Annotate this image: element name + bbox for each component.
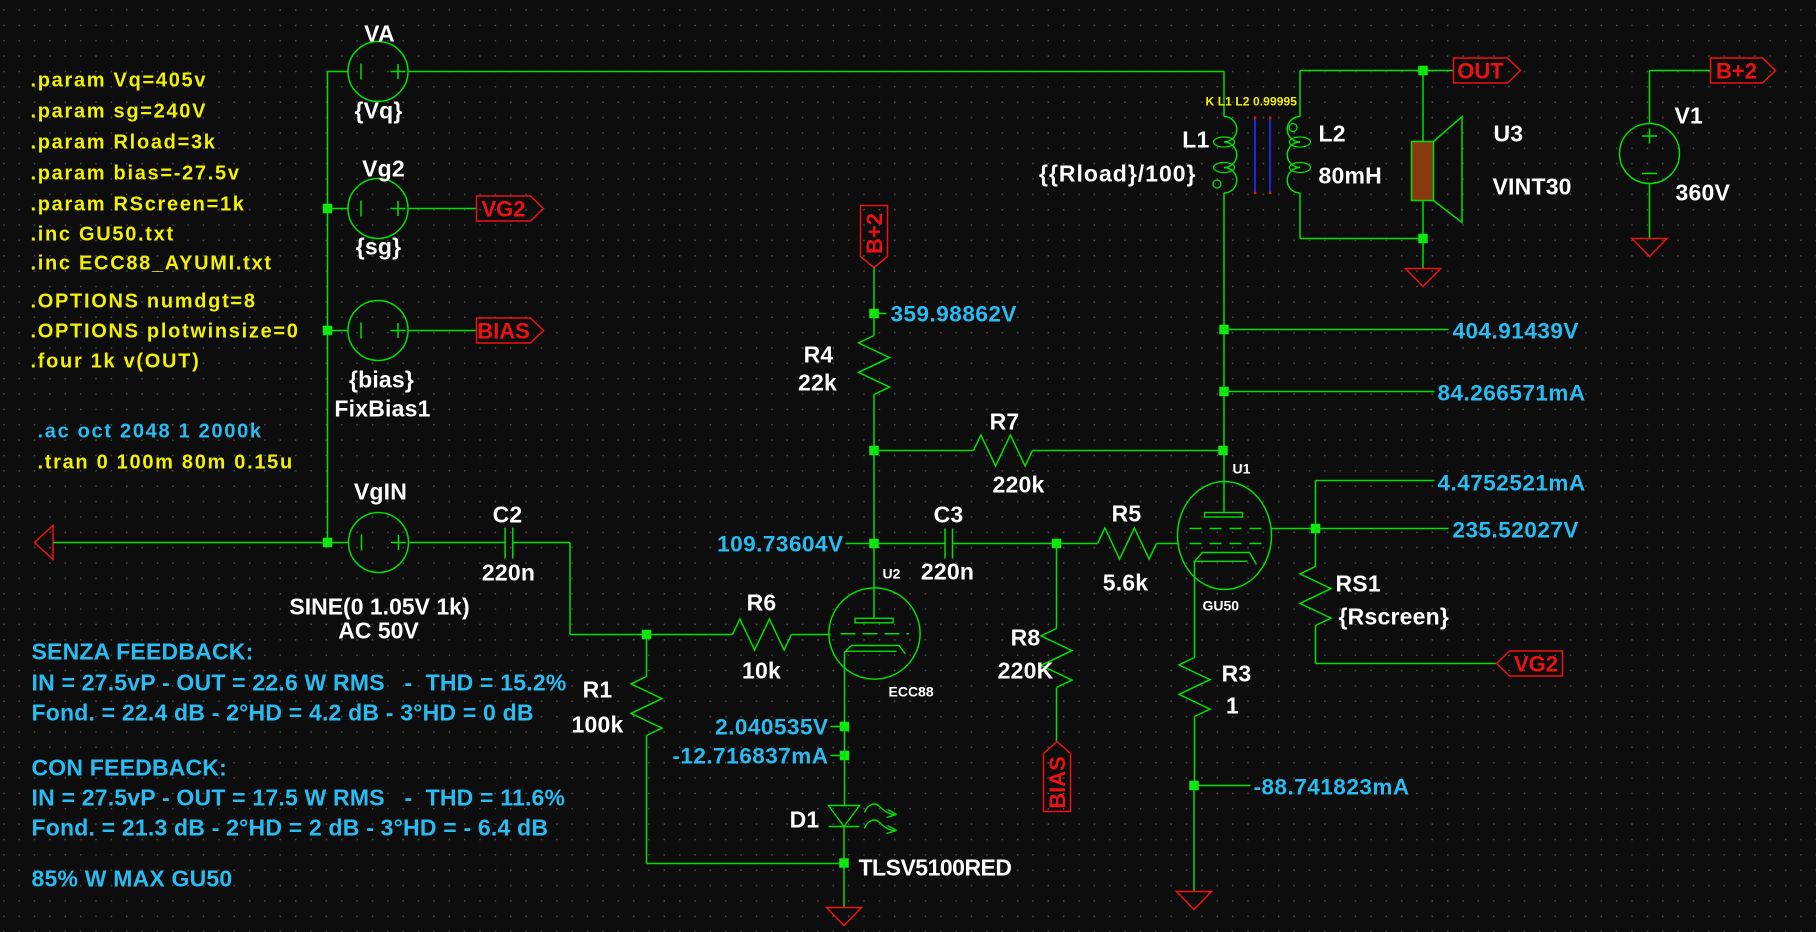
label R5 [1112, 501, 1142, 527]
label D1 [790, 807, 820, 833]
node junction [1418, 234, 1428, 244]
svg-text:235.52027V: 235.52027V [1453, 518, 1579, 543]
wire [1194, 785, 1251, 787]
svg-text:B+2: B+2 [1716, 59, 1757, 84]
svg-text:R4: R4 [804, 342, 834, 368]
wire [1299, 193, 1301, 239]
svg-text:{bias}: {bias} [349, 367, 414, 393]
svg-text:80mH: 80mH [1319, 163, 1382, 189]
wire [1223, 193, 1225, 513]
node junction [323, 204, 333, 214]
current annotation -12.716837mA [672, 744, 828, 769]
svg-text:{Vq}: {Vq} [354, 98, 402, 124]
label C3 [934, 502, 964, 528]
wire [328, 330, 349, 332]
wire [873, 544, 875, 618]
net flag B+2 right [1711, 58, 1776, 84]
capacitor C2 [505, 528, 513, 559]
net flag BIAS bottom [1044, 742, 1071, 812]
svg-text:RS1: RS1 [1336, 571, 1381, 597]
svg-text:220K: 220K [998, 658, 1054, 684]
svg-text:360V: 360V [1676, 180, 1731, 206]
wire [874, 543, 945, 545]
value label {{Rload}/100} [1039, 161, 1196, 187]
node junction [869, 446, 879, 456]
label U2 [883, 566, 901, 582]
wire [1224, 391, 1435, 393]
voltage source VgIN [349, 513, 409, 573]
resistor R6 [651, 619, 831, 650]
svg-text:1: 1 [1226, 693, 1239, 719]
value label 220n [921, 559, 974, 585]
svg-text:Vg2: Vg2 [362, 156, 405, 182]
label ECC88 [889, 684, 934, 700]
wire [1649, 184, 1651, 239]
svg-text:GU50: GU50 [1203, 598, 1240, 614]
wire [408, 208, 477, 210]
svg-text:359.98862V: 359.98862V [891, 302, 1017, 327]
wire [1193, 786, 1195, 892]
value label 100k [572, 712, 624, 738]
transformer core [1254, 117, 1271, 195]
svg-text:U1: U1 [1233, 461, 1251, 477]
node junction [840, 751, 850, 761]
label C2 [493, 502, 523, 528]
node junction [1218, 446, 1228, 456]
comment text block [32, 639, 567, 892]
led light arrows [865, 804, 897, 833]
svg-text:.inc GU50.txt: .inc GU50.txt [31, 224, 175, 246]
svg-text:109.73604V: 109.73604V [717, 532, 843, 557]
voltage source V1 [1620, 124, 1680, 184]
value label 5.6k [1103, 570, 1149, 596]
value label 220n [482, 560, 535, 586]
label R6 [747, 590, 777, 616]
svg-text:220k: 220k [993, 472, 1045, 498]
wire [1650, 70, 1711, 72]
value label {sg} [356, 234, 402, 260]
svg-text:220n: 220n [482, 560, 535, 586]
current annotation -88.741823mA [1254, 775, 1410, 800]
svg-text:4.4752521mA: 4.4752521mA [1438, 471, 1586, 496]
svg-text:R3: R3 [1222, 661, 1252, 687]
svg-text:Fond. = 22.4 dB - 2°HD = 4.2 d: Fond. = 22.4 dB - 2°HD = 4.2 dB - 3°HD =… [32, 700, 534, 726]
voltage annotation 404.91439V [1453, 319, 1579, 344]
wire [569, 543, 571, 635]
net flag VG2 left [1497, 651, 1563, 677]
wire [843, 864, 845, 908]
value label {Rscreen} [1339, 604, 1449, 630]
svg-text:OUT: OUT [1457, 59, 1504, 84]
svg-text:BIAS: BIAS [477, 319, 530, 344]
svg-text:5.6k: 5.6k [1103, 570, 1149, 596]
svg-text:R7: R7 [990, 409, 1020, 435]
wire [1422, 201, 1424, 239]
svg-text:L1: L1 [1182, 127, 1209, 153]
wire [513, 542, 570, 544]
net flag VG2 [477, 196, 544, 222]
node junction [323, 326, 333, 336]
svg-text:.tran 0 100m 80m 0.15u: .tran 0 100m 80m 0.15u [38, 452, 294, 474]
svg-text:-88.741823mA: -88.741823mA [1254, 775, 1410, 800]
speaker U3 VINT30 [1412, 117, 1463, 223]
svg-text:{sg}: {sg} [356, 234, 402, 260]
voltage annotation 359.98862V [891, 302, 1017, 327]
node junction [1219, 387, 1229, 397]
svg-text:.OPTIONS plotwinsize=0: .OPTIONS plotwinsize=0 [31, 321, 300, 343]
node junction [839, 858, 849, 868]
node junction [1052, 539, 1062, 549]
svg-text:K L1 L2 0.99995: K L1 L2 0.99995 [1206, 95, 1298, 109]
coupling K statement [1206, 95, 1298, 109]
svg-text:C2: C2 [493, 502, 523, 528]
wire [1223, 72, 1225, 117]
svg-text:B+2: B+2 [862, 213, 887, 254]
svg-text:R6: R6 [747, 590, 777, 616]
svg-text:VG2: VG2 [481, 197, 525, 222]
wire [843, 827, 845, 864]
current annotation 4.4752521mA [1438, 471, 1586, 496]
svg-text:85% W MAX GU50: 85% W MAX GU50 [32, 866, 233, 892]
label GU50 [1203, 598, 1240, 614]
resistor R8 [1041, 544, 1072, 742]
svg-text:FixBias1: FixBias1 [334, 396, 430, 422]
label TLSV5100RED [859, 855, 1012, 881]
value label 1 [1226, 693, 1239, 719]
svg-text:Fond. = 21.3 dB - 2°HD = 2 dB: Fond. = 21.3 dB - 2°HD = 2 dB - 3°HD = -… [32, 815, 549, 841]
wire [844, 652, 846, 727]
svg-text:.OPTIONS numdgt=8: .OPTIONS numdgt=8 [31, 291, 257, 313]
svg-text:100k: 100k [572, 712, 624, 738]
svg-text:D1: D1 [790, 807, 820, 833]
svg-text:U3: U3 [1494, 121, 1524, 147]
resistor R1 [631, 635, 662, 864]
resistor R3 [1179, 658, 1210, 786]
ground [1632, 239, 1667, 257]
inductor L1 [1213, 117, 1237, 194]
voltage source FixBias1 [348, 301, 408, 361]
capacitor C3 [945, 529, 953, 559]
wire [1316, 528, 1449, 530]
value label 220k [993, 472, 1045, 498]
svg-text:BIAS: BIAS [1045, 756, 1070, 809]
svg-text:{Rscreen}: {Rscreen} [1339, 604, 1449, 630]
label Vg2 [362, 156, 405, 182]
node junction [1189, 781, 1199, 791]
ground [1177, 892, 1212, 910]
svg-text:L2: L2 [1319, 121, 1346, 147]
value label {bias} [349, 367, 414, 393]
node junction [1219, 325, 1229, 335]
label VA [364, 21, 395, 47]
value label 22k [798, 370, 837, 396]
svg-text:{{Rload}/100}: {{Rload}/100} [1039, 161, 1196, 187]
svg-text:.four 1k v(OUT): .four 1k v(OUT) [31, 351, 201, 373]
svg-text:SINE(0 1.05V 1k): SINE(0 1.05V 1k) [289, 594, 469, 620]
svg-text:R5: R5 [1112, 501, 1142, 527]
voltage annotation 2.040535V [715, 715, 828, 740]
label RS1 [1336, 571, 1381, 597]
svg-text:.ac oct 2048 1 2000k: .ac oct 2048 1 2000k [38, 421, 263, 443]
label VgIN [354, 479, 407, 505]
voltage annotation 109.73604V [717, 532, 843, 557]
label VINT30 [1493, 174, 1572, 200]
spice directive .ac [38, 421, 263, 443]
svg-text:U2: U2 [883, 566, 901, 582]
wire [831, 726, 845, 728]
svg-text:.param sg=240V: .param sg=240V [31, 101, 208, 123]
label L1 [1182, 127, 1209, 153]
wire [53, 542, 349, 544]
node junction [869, 309, 879, 319]
ground [827, 908, 862, 926]
wire [873, 451, 875, 544]
ground [1406, 269, 1441, 287]
wire [328, 208, 349, 210]
svg-text:CON FEEDBACK:: CON FEEDBACK: [32, 755, 228, 781]
value label 80mH [1319, 163, 1382, 189]
resistor R7 [874, 435, 1223, 466]
wire [1422, 239, 1424, 269]
resistor R4 [859, 314, 890, 451]
node junction [1418, 66, 1428, 76]
triode U2 ECC88 [829, 588, 920, 679]
wire [327, 72, 329, 543]
input port arrow [35, 526, 54, 560]
svg-text:TLSV5100RED: TLSV5100RED [859, 855, 1012, 881]
svg-text:.param RScreen=1k: .param RScreen=1k [31, 194, 246, 216]
wire [647, 863, 844, 865]
node junction [323, 538, 333, 548]
svg-text:.param bias=-27.5v: .param bias=-27.5v [31, 163, 241, 185]
wire [408, 71, 1224, 73]
svg-text:VA: VA [364, 21, 395, 47]
net flag B+2 [861, 206, 888, 268]
wire [1316, 663, 1497, 665]
voltage source VA [348, 42, 408, 102]
wire [953, 543, 1057, 545]
wire [570, 634, 647, 636]
wire [1315, 481, 1317, 529]
wire [1649, 71, 1651, 124]
wire [408, 330, 477, 332]
svg-text:220n: 220n [921, 559, 974, 585]
label FixBias1 [334, 396, 430, 422]
node junction [869, 539, 879, 549]
value label {Vq} [354, 98, 402, 124]
value label 220K [998, 658, 1054, 684]
wire [1422, 71, 1424, 142]
wire [409, 542, 506, 544]
wire [1272, 528, 1316, 530]
led D1 [829, 806, 860, 827]
wire [1299, 71, 1301, 117]
label R3 [1222, 661, 1252, 687]
svg-text:R8: R8 [1011, 625, 1041, 651]
node junction [642, 630, 652, 640]
label R8 [1011, 625, 1041, 651]
svg-text:IN = 27.5vP - OUT = 22.6 W RMS: IN = 27.5vP - OUT = 22.6 W RMS - THD = 1… [32, 670, 567, 696]
svg-text:VG2: VG2 [1514, 652, 1558, 677]
svg-text:C3: C3 [934, 502, 964, 528]
svg-text:404.91439V: 404.91439V [1453, 319, 1579, 344]
label R1 [583, 677, 613, 703]
wire [874, 313, 887, 315]
svg-text:.param Vq=405v: .param Vq=405v [31, 70, 208, 92]
wire [831, 755, 845, 757]
net flag OUT [1454, 58, 1521, 84]
svg-text:-12.716837mA: -12.716837mA [672, 744, 828, 769]
wire [1316, 480, 1435, 482]
wire [1300, 238, 1423, 240]
svg-text:.param Rload=3k: .param Rload=3k [31, 132, 217, 154]
resistor RS1 [1300, 529, 1331, 664]
voltage annotation 235.52027V [1453, 518, 1579, 543]
wire [844, 727, 846, 806]
svg-text:SENZA FEEDBACK:: SENZA FEEDBACK: [32, 639, 254, 665]
wire [846, 543, 870, 545]
label R7 [990, 409, 1020, 435]
wire [873, 268, 875, 314]
net flag BIAS [477, 318, 544, 344]
value label AC 50V [338, 618, 419, 644]
label U3 [1494, 121, 1524, 147]
svg-text:2.040535V: 2.040535V [715, 715, 828, 740]
svg-text:10k: 10k [742, 658, 781, 684]
node junction [840, 722, 850, 732]
value label SINE [289, 594, 469, 620]
label U1 [1233, 461, 1251, 477]
svg-text:IN = 27.5vP - OUT = 17.5 W RMS: IN = 27.5vP - OUT = 17.5 W RMS - THD = 1… [32, 785, 566, 811]
resistor R5 [1057, 528, 1179, 559]
svg-text:V1: V1 [1675, 103, 1704, 129]
spice directives text [31, 70, 300, 373]
svg-text:AC 50V: AC 50V [338, 618, 419, 644]
spice directive .tran [38, 452, 294, 474]
voltage source Vg2 [348, 179, 408, 239]
wire [1300, 70, 1454, 72]
svg-text:R1: R1 [583, 677, 613, 703]
svg-text:ECC88: ECC88 [889, 684, 934, 700]
svg-text:22k: 22k [798, 370, 837, 396]
svg-text:VgIN: VgIN [354, 479, 407, 505]
wire [328, 71, 349, 73]
value label 10k [742, 658, 781, 684]
node junction [1311, 524, 1321, 534]
inductor L2 [1287, 117, 1310, 194]
current annotation 84.266571mA [1438, 381, 1586, 406]
pentode U1 GU50 [1178, 482, 1272, 590]
label R4 [804, 342, 834, 368]
svg-text:84.266571mA: 84.266571mA [1438, 381, 1586, 406]
wire [1224, 329, 1449, 331]
svg-text:VINT30: VINT30 [1493, 174, 1572, 200]
label L2 [1319, 121, 1346, 147]
label V1 [1675, 103, 1704, 129]
svg-text:.inc ECC88_AYUMI.txt: .inc ECC88_AYUMI.txt [31, 253, 273, 275]
wire [1194, 562, 1196, 658]
value label 360V [1676, 180, 1731, 206]
